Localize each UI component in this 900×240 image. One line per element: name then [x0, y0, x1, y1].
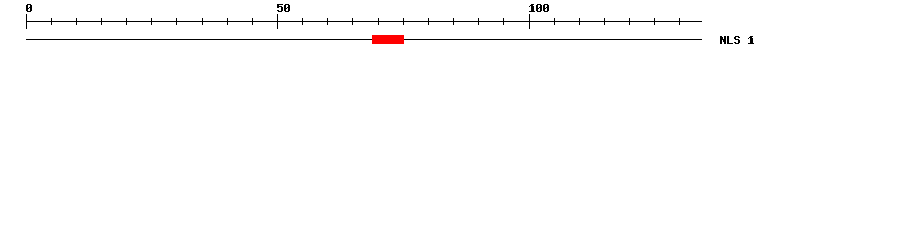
major tick 50 [277, 14, 278, 29]
ruler label "100" [529, 4, 549, 12]
major tick 0 [26, 14, 27, 29]
ruler label "0" [26, 4, 32, 12]
NLS feature box (red) [372, 35, 404, 44]
ruler label "50" [277, 4, 290, 12]
minor ticks every 5 units [51, 18, 680, 25]
feature label "NLS 1" [720, 36, 754, 44]
ruler baseline [26, 21, 702, 22]
major tick 100 [529, 14, 530, 29]
protein backbone line [26, 39, 702, 40]
background [0, 0, 900, 58]
